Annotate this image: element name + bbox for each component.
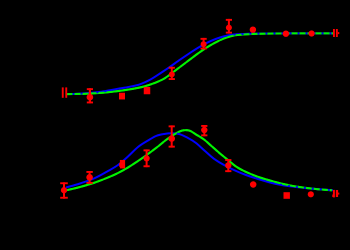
top point T8 circle: [250, 27, 256, 33]
top point T7 with y error bar: [228, 19, 230, 34]
bottom point B11 double bars with stubs: [333, 190, 335, 198]
top point T3 square: [119, 93, 125, 100]
bottom point B3 square with stub: [120, 160, 125, 169]
bottom point B6 with y error bar: [203, 125, 205, 136]
bottom point B9 square: [284, 192, 290, 199]
bottom panel: blue solid fit curve: [66, 133, 333, 190]
top point T1 double bars: [62, 87, 64, 97]
top point T6 with y error bar: [203, 38, 205, 50]
bottom point B5 with y error bar: [171, 125, 173, 147]
bottom point B2 with y error bar: [89, 171, 91, 184]
top point T2 with y error bar: [89, 88, 91, 103]
bottom point B7 with y error bar: [227, 159, 229, 172]
bottom point B4 with y error bar: [146, 149, 148, 167]
bottom point B10 circle: [308, 191, 314, 197]
top panel: green dashed fit curve overlay: [67, 33, 334, 94]
top point T5 with y error bar: [171, 67, 173, 80]
bottom panel: green solid fit curve: [66, 130, 332, 190]
top panel: green solid fit curve: [67, 33, 334, 94]
bottom point B1 with y error bar: [63, 182, 65, 198]
bottom point B8 circle: [250, 181, 257, 188]
top point T10 circle: [309, 30, 315, 36]
top point T4 square: [144, 87, 151, 94]
bottom panel: green dashed fit curve overlay: [66, 130, 332, 190]
top point T9 circle: [283, 31, 289, 37]
top panel: blue solid fit curve: [67, 33, 334, 94]
top point T11 double bars with stub: [333, 29, 335, 37]
